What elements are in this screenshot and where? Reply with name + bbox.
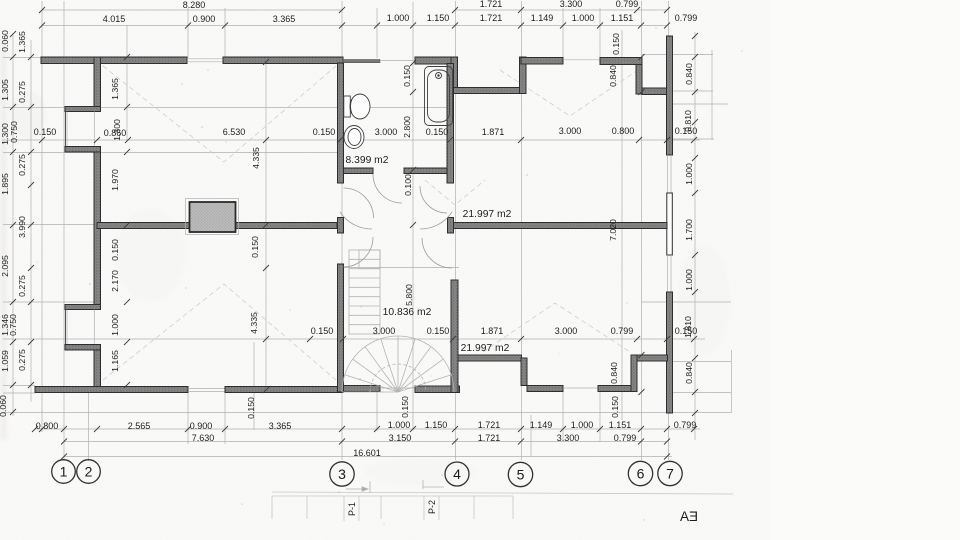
bathroom right wall <box>447 64 454 184</box>
svg-text:2: 2 <box>85 464 93 480</box>
svg-text:0.150: 0.150 <box>34 127 57 137</box>
svg-text:0.150: 0.150 <box>110 239 120 261</box>
window right wall upper <box>667 155 669 193</box>
right notch bottom wall <box>642 88 668 95</box>
dimension tick marks <box>10 7 698 460</box>
section arrow below bubble 3 <box>346 481 370 493</box>
grid horizontal lines <box>2 10 731 457</box>
svg-text:1.000: 1.000 <box>684 269 694 291</box>
pier wall lower <box>667 292 673 413</box>
svg-text:6.530: 6.530 <box>223 127 246 137</box>
door arc stair right <box>422 238 452 268</box>
svg-text:1.151: 1.151 <box>611 13 634 23</box>
bottom window 0.900 <box>188 388 225 390</box>
scan specks <box>37 14 743 524</box>
stairs winder fan <box>342 336 454 392</box>
left bay step 4 <box>65 345 101 351</box>
southeast wall S1 <box>454 355 522 361</box>
svg-text:0.150: 0.150 <box>311 326 334 336</box>
grid vertical lines <box>13 1 732 461</box>
svg-text:16.601: 16.601 <box>353 448 381 458</box>
stair room left wall <box>338 264 344 392</box>
left wall middle <box>94 152 101 305</box>
svg-text:10.836 m2: 10.836 m2 <box>383 307 432 318</box>
svg-text:1.895: 1.895 <box>0 173 10 195</box>
svg-text:0.900: 0.900 <box>190 421 213 431</box>
svg-text:0.750: 0.750 <box>9 121 19 143</box>
svg-text:1: 1 <box>60 464 68 480</box>
svg-text:3.365: 3.365 <box>269 421 292 431</box>
svg-text:0.275: 0.275 <box>17 349 27 371</box>
bathroom left wall <box>338 63 344 183</box>
svg-text:1.150: 1.150 <box>425 420 448 430</box>
left bay window 1 <box>64 112 66 148</box>
wall top T3 <box>223 57 343 64</box>
svg-text:1.700: 1.700 <box>684 219 694 241</box>
svg-text:0.150: 0.150 <box>246 397 256 419</box>
interior wall cap right <box>448 218 454 234</box>
interior wall right <box>454 223 668 229</box>
svg-text:AƎ: AƎ <box>680 509 698 524</box>
svg-text:2.800: 2.800 <box>402 116 412 138</box>
svg-text:1.151: 1.151 <box>609 420 632 430</box>
svg-text:1.810: 1.810 <box>683 316 693 338</box>
southeast wall S4 <box>637 355 668 361</box>
stove outline <box>186 199 239 235</box>
svg-text:0.150: 0.150 <box>402 65 412 87</box>
southeast step S3 <box>631 355 637 392</box>
svg-text:P-1: P-1 <box>347 502 357 516</box>
scan smudges <box>0 40 730 486</box>
svg-text:1.365: 1.365 <box>17 31 27 53</box>
door arc stair left <box>344 237 374 267</box>
ghost column grid bottom <box>272 496 513 521</box>
bottom window 1.000 right <box>563 387 598 389</box>
svg-text:0.750: 0.750 <box>8 314 18 336</box>
svg-text:0.840: 0.840 <box>684 63 694 85</box>
dimension texts bottom row 2 <box>192 433 637 443</box>
bottom wall B1 <box>35 387 188 393</box>
room labels <box>346 155 512 354</box>
window right wall lower <box>667 255 669 292</box>
left wall lower <box>94 350 101 392</box>
svg-text:3.000: 3.000 <box>559 126 582 136</box>
svg-text:1.300: 1.300 <box>112 119 122 141</box>
right notch leg <box>636 65 642 95</box>
door arc hall west <box>344 188 374 218</box>
svg-text:0.150: 0.150 <box>610 396 620 418</box>
svg-text:1.000: 1.000 <box>388 420 411 430</box>
wall top T1 <box>41 57 187 64</box>
svg-text:7.630: 7.630 <box>192 433 215 443</box>
svg-text:1.871: 1.871 <box>482 127 505 137</box>
svg-text:1.365: 1.365 <box>110 78 120 100</box>
svg-text:3.990: 3.990 <box>17 216 27 238</box>
bathtub <box>425 67 453 126</box>
svg-text:7.020: 7.020 <box>608 219 618 241</box>
svg-text:2.565: 2.565 <box>128 421 151 431</box>
svg-text:5: 5 <box>517 467 525 483</box>
left bay step 2 <box>65 147 101 153</box>
svg-text:1.000: 1.000 <box>387 13 410 23</box>
balcony notch left leg <box>451 57 458 94</box>
svg-text:0.060: 0.060 <box>0 395 8 417</box>
svg-text:3.000: 3.000 <box>373 326 396 336</box>
svg-text:1.149: 1.149 <box>531 13 554 23</box>
svg-text:1.149: 1.149 <box>530 420 553 430</box>
svg-text:0.840: 0.840 <box>608 65 618 87</box>
grid bubble 7 <box>658 461 682 485</box>
svg-text:0.275: 0.275 <box>17 275 27 297</box>
grid bubble 5 <box>508 462 532 486</box>
svg-text:1.150: 1.150 <box>427 13 450 23</box>
door arc hall west wide <box>340 212 372 229</box>
roof slope dashed lines bottom-left room <box>103 284 336 380</box>
svg-text:1.871: 1.871 <box>481 326 504 336</box>
svg-text:0.150: 0.150 <box>427 326 450 336</box>
vertical dims interior column x118 <box>110 78 122 372</box>
interior wall cap left <box>338 218 344 234</box>
svg-text:0.800: 0.800 <box>36 421 59 431</box>
left bay step 1 <box>65 107 101 112</box>
svg-text:3.000: 3.000 <box>375 127 398 137</box>
balcony notch bottom wall <box>451 88 526 94</box>
svg-text:0.900: 0.900 <box>193 14 216 24</box>
svg-text:8.280: 8.280 <box>183 0 206 10</box>
ghost scan line bottom <box>272 492 733 494</box>
svg-text:2.095: 2.095 <box>0 255 10 277</box>
svg-text:3: 3 <box>338 466 346 482</box>
grid bubble 1 <box>52 460 76 484</box>
svg-text:0.840: 0.840 <box>684 362 694 384</box>
wall top T6 <box>521 58 563 65</box>
dimension texts bottom row 1 <box>36 420 697 431</box>
grid bubble 2 <box>77 460 101 484</box>
vertical dims left column A <box>0 30 10 417</box>
left bay window 2 <box>64 310 66 346</box>
svg-text:0.799: 0.799 <box>611 326 634 336</box>
bottom wall B9 <box>598 386 637 392</box>
svg-text:3.300: 3.300 <box>560 0 583 9</box>
svg-text:0.810: 0.810 <box>683 110 693 132</box>
wall top T7 <box>600 58 642 65</box>
vertical dims left column B <box>8 31 27 371</box>
svg-text:0.800: 0.800 <box>612 126 635 136</box>
svg-text:0.275: 0.275 <box>17 81 27 103</box>
svg-text:0.150: 0.150 <box>426 127 449 137</box>
svg-text:0.275: 0.275 <box>17 154 27 176</box>
bottom wall B4 under stairs <box>343 386 380 392</box>
svg-text:1.000: 1.000 <box>572 13 595 23</box>
southeast step S2 <box>521 358 527 386</box>
svg-text:0.100: 0.100 <box>403 174 413 196</box>
pier wall upper <box>667 36 673 155</box>
bottom wall B3 <box>225 387 343 393</box>
svg-text:21.997 m2: 21.997 m2 <box>461 343 510 354</box>
svg-text:8.399 m2: 8.399 m2 <box>346 155 389 166</box>
svg-text:1.721: 1.721 <box>480 13 503 23</box>
svg-text:P-2: P-2 <box>427 500 437 514</box>
window sill above bathroom <box>343 60 380 63</box>
door arc hall east upper <box>420 186 447 213</box>
window top 1.000 right <box>563 59 600 61</box>
svg-text:1.000: 1.000 <box>571 420 594 430</box>
svg-text:3.365: 3.365 <box>273 14 296 24</box>
left bay step 3 <box>65 305 101 310</box>
svg-text:0.150: 0.150 <box>313 127 336 137</box>
dimension texts top row 1 <box>183 0 639 10</box>
stairs straight flight <box>349 250 380 334</box>
dimension texts top row 2 <box>103 13 698 24</box>
roof slope dashed lines top-left room <box>103 66 336 162</box>
grid bubble 4 <box>445 462 469 486</box>
bottom wall B7 <box>527 386 563 392</box>
svg-text:4: 4 <box>453 466 461 482</box>
svg-text:1.000: 1.000 <box>110 314 120 336</box>
svg-text:6: 6 <box>637 466 645 482</box>
interior wall left <box>97 223 337 229</box>
door arc hall east wide <box>420 212 452 229</box>
wall top T5 <box>415 57 454 64</box>
svg-text:4.335: 4.335 <box>251 147 261 169</box>
grid bubble 6 <box>628 461 652 485</box>
dimension texts middle row lower <box>311 326 698 336</box>
svg-text:0.150: 0.150 <box>400 396 410 418</box>
roof slope dashed lines top-right room <box>500 70 638 116</box>
grid bubble 3 <box>330 462 354 486</box>
svg-text:1.721: 1.721 <box>478 433 501 443</box>
svg-text:0.799: 0.799 <box>614 433 637 443</box>
dimension texts middle row upper <box>34 126 698 138</box>
svg-text:21.997 m2: 21.997 m2 <box>463 209 512 220</box>
stove <box>190 202 236 232</box>
door arc bathroom <box>373 174 402 203</box>
svg-text:3.000: 3.000 <box>555 326 578 336</box>
roof slope dashed lines bottom-right room <box>483 303 630 352</box>
svg-text:3.300: 3.300 <box>557 433 580 443</box>
svg-text:2.170: 2.170 <box>110 270 120 292</box>
svg-text:0.060: 0.060 <box>0 30 10 52</box>
svg-text:1.721: 1.721 <box>478 420 501 430</box>
toilet <box>344 94 370 119</box>
svg-text:0.150: 0.150 <box>250 236 260 258</box>
window top 1.000 <box>380 60 415 62</box>
svg-text:0.840: 0.840 <box>609 362 619 384</box>
svg-text:4.335: 4.335 <box>249 312 259 334</box>
svg-text:4.015: 4.015 <box>103 14 126 24</box>
washbasin <box>344 126 364 149</box>
vertical dims column x692 <box>683 63 694 384</box>
roof slope dashed lines hall <box>425 180 485 205</box>
svg-text:0.150: 0.150 <box>611 33 621 55</box>
stair room right wall <box>451 280 458 393</box>
svg-text:1.000: 1.000 <box>684 163 694 185</box>
svg-text:0.799: 0.799 <box>675 13 698 23</box>
svg-text:0.799: 0.799 <box>616 0 639 9</box>
vertical dims column x410 <box>400 65 414 418</box>
section mark below bubble 4 <box>423 480 444 489</box>
svg-text:1.165: 1.165 <box>110 350 120 372</box>
svg-text:1.059: 1.059 <box>0 350 10 372</box>
svg-text:1.305: 1.305 <box>0 79 10 101</box>
bottom wall B6 <box>415 386 460 393</box>
bathroom floor wall right <box>404 168 447 174</box>
svg-text:1.721: 1.721 <box>480 0 503 9</box>
bathroom floor wall left <box>344 168 374 174</box>
svg-text:3.150: 3.150 <box>389 433 412 443</box>
vertical dims column x617 <box>608 33 621 418</box>
svg-text:5.800: 5.800 <box>404 284 414 306</box>
svg-text:1.970: 1.970 <box>110 169 120 191</box>
bottom window 1.000 <box>380 387 415 389</box>
balcony notch right leg <box>520 57 527 94</box>
window top 0.900 <box>187 58 223 60</box>
svg-text:0.799: 0.799 <box>674 420 697 430</box>
left wall upper <box>94 57 101 107</box>
pier wall middle white <box>667 193 673 255</box>
vertical dims column x260 <box>246 147 261 419</box>
svg-text:7: 7 <box>666 466 674 482</box>
